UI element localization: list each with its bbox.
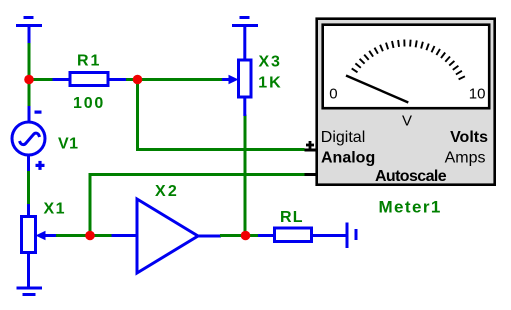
node C junction: [241, 231, 251, 241]
node D junction: [85, 231, 95, 241]
svg-text:100: 100: [73, 95, 105, 112]
ground GND1 (top-left): [16, 18, 42, 45]
voltage source V1: [12, 106, 45, 172]
meter Meter1 body: [317, 19, 495, 185]
svg-text:Volts: Volts: [450, 129, 488, 146]
meter needle: [346, 76, 408, 103]
svg-text:X1: X1: [44, 201, 67, 218]
svg-text:Analog: Analog: [321, 149, 375, 166]
svg-text:1K: 1K: [258, 75, 282, 92]
svg-text:V1: V1: [58, 136, 79, 153]
V1 plus sign: [36, 161, 45, 170]
svg-text:Autoscale: Autoscale: [375, 168, 447, 185]
wire to meter minus terminal: [89, 173, 305, 176]
X3 wiper arrowhead: [229, 75, 239, 84]
meter scale ticks: [352, 40, 465, 80]
svg-text:RL: RL: [280, 209, 304, 226]
wire node B down: [136, 80, 139, 150]
wire node A to R1 left lead: [29, 78, 53, 81]
potentiometer X1: [22, 204, 58, 287]
svg-text:R1: R1: [77, 53, 101, 70]
meter terminal stub plus: [305, 149, 318, 152]
svg-text:V: V: [402, 113, 412, 130]
svg-text:X3: X3: [259, 54, 282, 71]
wire node A down to V1: [28, 80, 31, 108]
wire X3 bottom to node C: [244, 115, 247, 236]
op-amp X2: [112, 199, 222, 273]
resistor RL: [258, 228, 347, 242]
svg-text:Amps: Amps: [445, 149, 486, 166]
wire V1 to X1: [27, 171, 30, 205]
resistor R1: [53, 73, 127, 86]
wire feedback node D up: [89, 175, 92, 236]
svg-text:Digital: Digital: [321, 129, 365, 146]
wire op-amp output to node C: [220, 234, 246, 237]
wire ground to node A: [28, 43, 31, 81]
wire R1 to node B: [126, 78, 138, 81]
meter display face: [323, 25, 490, 109]
node A junction: [24, 75, 34, 85]
svg-text:Meter1: Meter1: [379, 198, 442, 217]
meter plus sign: [306, 141, 314, 149]
meter terminal stub minus: [305, 173, 318, 176]
wire node B to X3 arrow: [138, 78, 223, 81]
ground GND2 (bottom-left): [17, 288, 43, 295]
ground GND3 (top-right, above X3): [232, 18, 258, 61]
X1 wiper arrowhead: [36, 231, 46, 240]
wire node C to RL: [245, 234, 259, 237]
V1 minus sign: [35, 111, 42, 114]
svg-text:X2: X2: [155, 183, 179, 200]
svg-text:10: 10: [469, 85, 486, 102]
ground GND4 (right of RL): [347, 223, 356, 249]
potentiometer X3: [222, 60, 251, 116]
svg-text:0: 0: [329, 85, 337, 102]
wire X1 wiper to node D: [56, 234, 91, 237]
wire node D to op-amp input: [90, 234, 113, 237]
wire to meter plus terminal: [136, 148, 305, 151]
node B junction: [133, 75, 143, 85]
